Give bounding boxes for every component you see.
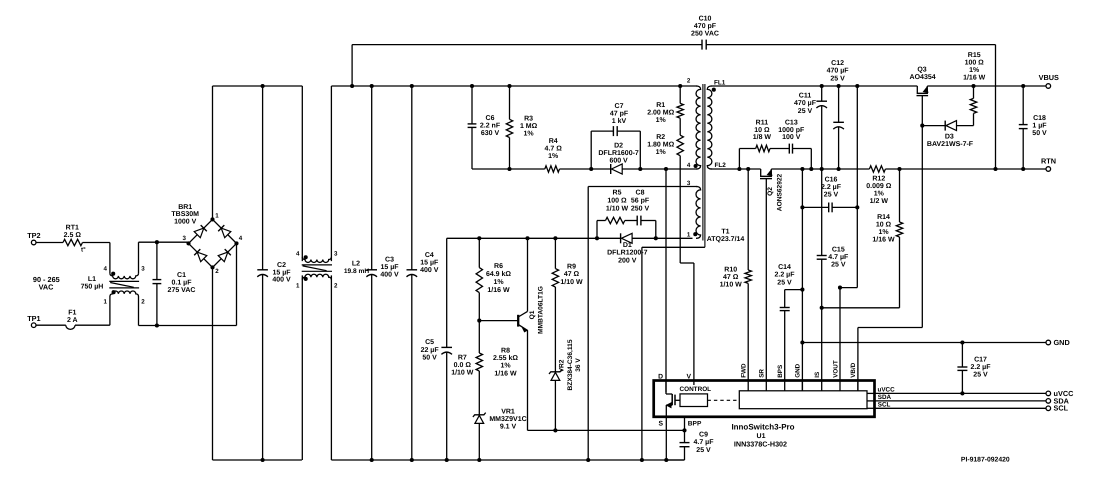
svg-text:1: 1 — [215, 213, 219, 220]
svg-text:t°: t° — [81, 247, 86, 254]
svg-text:25 V: 25 V — [824, 191, 839, 198]
common-mode choke L1 — [81, 265, 146, 305]
svg-text:1%: 1% — [874, 191, 885, 198]
IC pin SCL — [867, 401, 891, 408]
capacitor C11 — [794, 86, 827, 169]
capacitor C12 — [827, 60, 850, 169]
svg-text:250 VAC: 250 VAC — [691, 31, 719, 38]
thermistor RT1 — [63, 225, 86, 254]
svg-text:4: 4 — [687, 162, 691, 169]
svg-text:R7: R7 — [458, 355, 467, 362]
svg-text:19.8 mH: 19.8 mH — [344, 268, 370, 275]
wire uVCC — [875, 392, 1047, 394]
svg-text:10 Ω: 10 Ω — [754, 127, 770, 134]
wire clamp line / resistor R4 — [472, 138, 611, 172]
svg-text:2.2 nF: 2.2 nF — [480, 123, 501, 130]
svg-text:R3: R3 — [524, 116, 533, 123]
label 90-265 VAC — [33, 275, 60, 292]
svg-text:50 V: 50 V — [422, 355, 437, 362]
svg-text:1/10 W: 1/10 W — [720, 281, 743, 289]
svg-text:C10: C10 — [699, 16, 712, 23]
svg-text:L1: L1 — [88, 276, 96, 283]
svg-text:0.1 µF: 0.1 µF — [172, 279, 193, 286]
wire TP2 to RT1 — [36, 242, 63, 244]
wire BPP line — [528, 428, 687, 432]
IC internal MOSFET — [666, 394, 680, 408]
svg-text:15 µF: 15 µF — [420, 260, 439, 267]
svg-text:1%: 1% — [969, 67, 980, 74]
svg-text:TP1: TP1 — [27, 314, 40, 323]
IC pin V — [686, 374, 691, 381]
terminal TP1 — [27, 314, 40, 328]
capacitor C8 — [631, 190, 656, 239]
svg-text:R2: R2 — [656, 134, 665, 141]
capacitor C9 — [666, 430, 714, 460]
svg-text:15 µF: 15 µF — [380, 264, 399, 271]
svg-text:BAV21WS-7-F: BAV21WS-7-F — [927, 141, 974, 148]
svg-text:47 Ω: 47 Ω — [723, 274, 739, 281]
svg-text:1%: 1% — [524, 131, 535, 138]
IC pin VOUT — [832, 360, 840, 391]
svg-text:4.7 µF: 4.7 µF — [694, 439, 715, 446]
svg-text:3: 3 — [334, 250, 338, 257]
svg-text:3: 3 — [141, 265, 145, 272]
svg-text:25 V: 25 V — [973, 371, 988, 378]
svg-text:VOUT: VOUT — [832, 360, 839, 378]
transformer T1 primary winding — [694, 86, 701, 169]
svg-text:1 µF: 1 µF — [1032, 123, 1047, 130]
svg-text:SCL: SCL — [1054, 404, 1069, 413]
svg-text:C8: C8 — [636, 190, 645, 197]
svg-text:C3: C3 — [385, 257, 394, 264]
svg-text:25 V: 25 V — [696, 447, 711, 454]
svg-text:1/2 W: 1/2 W — [870, 197, 889, 205]
svg-text:400 V: 400 V — [272, 277, 291, 284]
svg-text:2: 2 — [687, 77, 691, 84]
capacitor C17 — [957, 343, 991, 396]
wire L1 pin 3 to BR1 pin 3 — [139, 240, 189, 273]
wire IS net / capacitor C15 — [817, 169, 849, 381]
svg-text:470 pF: 470 pF — [694, 23, 717, 30]
wire Q1 emitter to BPP line — [527, 330, 529, 430]
svg-text:4: 4 — [296, 250, 300, 257]
svg-text:MM3Z9V1C: MM3Z9V1C — [489, 416, 526, 423]
svg-text:1 MΩ: 1 MΩ — [520, 123, 538, 130]
IC pin VB/D — [850, 362, 858, 390]
IC pin uVCC — [867, 387, 895, 394]
wire SCL — [875, 407, 1047, 409]
capacitor C10 and top rail — [352, 16, 997, 172]
wire VOUT net — [838, 86, 857, 381]
bridge rectifier BR1 — [171, 204, 242, 275]
svg-text:AO4354: AO4354 — [910, 74, 936, 81]
IC pin IS — [814, 372, 822, 391]
resistor R6 — [476, 238, 511, 320]
svg-text:R5: R5 — [613, 190, 622, 197]
transformer T1 bias winding — [693, 187, 744, 244]
svg-text:DFLR1200-7: DFLR1200-7 — [607, 250, 648, 257]
svg-text:INN3378C-H302: INN3378C-H302 — [734, 439, 787, 448]
wire DC+ rail — [331, 84, 697, 88]
IC pin BPP — [685, 417, 702, 431]
svg-text:15 µF: 15 µF — [272, 269, 291, 276]
svg-text:1.80 MΩ: 1.80 MΩ — [647, 142, 674, 149]
MOSFET Q3 — [910, 67, 936, 126]
terminal RTN — [1041, 156, 1056, 171]
wire SDA — [875, 400, 1047, 402]
wire bias pin 3 to primary ground — [588, 187, 697, 461]
svg-text:2: 2 — [215, 268, 219, 275]
wire D pin — [664, 167, 668, 392]
svg-text:R9: R9 — [567, 263, 576, 270]
svg-text:1000 V: 1000 V — [174, 219, 197, 226]
wire FWD net / resistor R10 — [720, 167, 752, 381]
svg-text:FL2: FL2 — [715, 162, 727, 169]
svg-text:750 µH: 750 µH — [81, 284, 104, 291]
svg-text:GND: GND — [795, 363, 802, 377]
IC pin FWD — [741, 363, 749, 391]
svg-text:200 V: 200 V — [618, 257, 637, 264]
capacitor C4 — [407, 86, 440, 460]
resistor R11 — [737, 119, 789, 171]
svg-text:TP2: TP2 — [27, 231, 40, 240]
svg-text:DFLR1600-7: DFLR1600-7 — [598, 150, 639, 157]
svg-text:BR1: BR1 — [178, 204, 192, 211]
wire GND pin net — [800, 169, 804, 391]
resistor R14 — [822, 169, 903, 308]
svg-text:C13: C13 — [785, 119, 798, 126]
svg-text:4: 4 — [104, 265, 108, 272]
svg-text:F1: F1 — [68, 309, 76, 316]
svg-text:VR1: VR1 — [501, 409, 515, 416]
wire bottom primary rail — [331, 458, 684, 462]
svg-text:600 V: 600 V — [609, 158, 628, 165]
svg-text:25 V: 25 V — [831, 262, 846, 269]
terminal SCL — [1046, 404, 1069, 413]
svg-text:R14: R14 — [877, 214, 890, 221]
transformer T1 core — [703, 84, 705, 247]
svg-text:C7: C7 — [615, 103, 624, 110]
svg-text:1/16 W: 1/16 W — [487, 286, 510, 294]
capacitor C7 — [591, 103, 640, 169]
label PI-9187-092420 — [961, 456, 1010, 463]
svg-text:MMBTA06LT1G: MMBTA06LT1G — [537, 286, 544, 334]
terminal TP2 — [27, 231, 40, 245]
wire core ground — [642, 247, 705, 460]
svg-text:1: 1 — [104, 298, 108, 305]
IC pin D — [658, 374, 666, 394]
capacitor C6 — [468, 86, 501, 169]
capacitor C18 — [1019, 86, 1047, 169]
terminal uVCC — [1046, 389, 1074, 398]
svg-text:1: 1 — [296, 282, 300, 289]
svg-text:1/10 W: 1/10 W — [606, 205, 629, 213]
svg-text:Q1: Q1 — [529, 310, 536, 319]
svg-text:250 V: 250 V — [631, 206, 650, 213]
MOSFET Q2 — [760, 169, 784, 211]
capacitor C2 — [257, 86, 291, 460]
svg-text:R12: R12 — [872, 176, 885, 183]
svg-text:2: 2 — [141, 298, 145, 305]
svg-text:Q2: Q2 — [767, 187, 774, 196]
svg-text:C14: C14 — [778, 264, 791, 271]
svg-text:uVCC: uVCC — [878, 387, 896, 394]
svg-text:V: V — [686, 374, 691, 381]
svg-text:C9: C9 — [699, 432, 708, 439]
svg-text:22 µF: 22 µF — [421, 347, 440, 354]
svg-text:RT1: RT1 — [66, 225, 79, 232]
svg-text:3: 3 — [687, 180, 691, 187]
svg-text:C18: C18 — [1033, 115, 1046, 122]
svg-text:IS: IS — [814, 372, 821, 378]
svg-text:C1: C1 — [177, 272, 186, 279]
svg-text:1/16 W: 1/16 W — [494, 369, 517, 377]
svg-text:VR2: VR2 — [559, 359, 566, 372]
svg-text:2.55 kΩ: 2.55 kΩ — [493, 354, 518, 362]
svg-text:BPP: BPP — [688, 421, 702, 428]
svg-text:D: D — [658, 374, 663, 381]
svg-text:R8: R8 — [501, 347, 510, 354]
terminal GND — [1046, 338, 1070, 347]
svg-text:630 V: 630 V — [481, 130, 500, 137]
svg-text:ATQ23.7/14: ATQ23.7/14 — [707, 235, 745, 243]
resistor R2 — [647, 118, 683, 156]
svg-text:470 µF: 470 µF — [794, 100, 817, 107]
resistor R9 — [552, 238, 583, 371]
svg-text:C12: C12 — [831, 60, 844, 67]
capacitor C13 — [778, 119, 813, 171]
svg-text:1%: 1% — [656, 117, 667, 124]
svg-text:0.009 Ω: 0.009 Ω — [866, 183, 891, 190]
svg-text:2: 2 — [334, 282, 338, 289]
svg-text:GND: GND — [1054, 338, 1070, 347]
svg-text:1/10 W: 1/10 W — [560, 278, 583, 286]
svg-text:C11: C11 — [799, 92, 812, 99]
svg-text:1/10 W: 1/10 W — [451, 369, 474, 377]
svg-text:VAC: VAC — [39, 283, 55, 292]
svg-text:CONTROL: CONTROL — [679, 386, 711, 393]
fuse F1 — [36, 309, 78, 329]
terminal VBUS — [1039, 73, 1059, 88]
svg-text:1/16 W: 1/16 W — [872, 236, 895, 244]
IC labels — [731, 422, 794, 448]
IC pin S — [658, 405, 666, 460]
svg-text:T1: T1 — [721, 229, 729, 236]
wire RT1 to L1 pin 4 — [83, 243, 110, 274]
svg-text:Q3: Q3 — [917, 67, 926, 74]
svg-text:1%: 1% — [878, 229, 889, 236]
svg-text:PI-9187-092420: PI-9187-092420 — [961, 456, 1010, 463]
transformer T1 pin numbers — [687, 77, 691, 238]
svg-text:C15: C15 — [832, 247, 845, 254]
svg-text:1%: 1% — [656, 149, 667, 156]
wire L1 pin 2 to BR1 pin 4 — [139, 243, 237, 327]
svg-text:0.0 Ω: 0.0 Ω — [454, 362, 472, 369]
svg-text:C5: C5 — [425, 339, 434, 346]
svg-text:56 pF: 56 pF — [631, 198, 650, 205]
transistor Q1 — [477, 286, 544, 334]
svg-text:470 µF: 470 µF — [827, 68, 850, 75]
svg-text:BPS: BPS — [777, 365, 784, 378]
svg-text:3: 3 — [183, 235, 187, 242]
svg-text:R15: R15 — [968, 52, 981, 59]
IC U1 InnoSwitch3-Pro box — [654, 381, 875, 417]
svg-text:25 V: 25 V — [830, 75, 845, 82]
svg-text:10 Ω: 10 Ω — [876, 221, 892, 228]
wire secondary return rail FL2 — [711, 167, 1047, 171]
svg-text:SR: SR — [759, 369, 766, 378]
svg-text:1 kV: 1 kV — [612, 117, 627, 125]
transformer T1 secondary winding — [707, 79, 726, 169]
wire R2 to V pin — [680, 156, 694, 385]
svg-text:2.2 µF: 2.2 µF — [775, 272, 796, 279]
capacitor C3 — [366, 86, 399, 460]
wire SR net — [765, 179, 767, 381]
svg-text:1: 1 — [687, 232, 691, 239]
resistor R7 label — [451, 355, 474, 377]
svg-text:BZX384-C36,115: BZX384-C36,115 — [567, 339, 574, 390]
svg-text:1/8 W: 1/8 W — [753, 133, 772, 141]
svg-text:D1: D1 — [623, 242, 632, 249]
svg-text:SCL: SCL — [878, 401, 891, 408]
svg-text:C4: C4 — [425, 252, 434, 259]
svg-text:R11: R11 — [756, 119, 769, 126]
svg-text:D2: D2 — [614, 143, 623, 150]
resistor R15 — [963, 52, 986, 126]
wire VBUS rail FL1 — [711, 84, 1047, 88]
svg-text:2.2 µF: 2.2 µF — [971, 364, 992, 371]
svg-text:47 pF: 47 pF — [610, 111, 629, 118]
svg-text:S: S — [658, 421, 663, 428]
resistor R5 — [597, 190, 637, 239]
resistor R8 — [476, 321, 518, 415]
svg-text:L2: L2 — [352, 260, 360, 267]
svg-text:SDA: SDA — [878, 394, 892, 401]
common-mode choke L2 — [296, 86, 369, 460]
IC pin BPS — [777, 365, 785, 391]
resistor R3 — [506, 86, 537, 171]
resistor R12 — [866, 166, 891, 205]
wire Q1 collector — [527, 238, 529, 311]
svg-text:275 VAC: 275 VAC — [168, 287, 196, 294]
svg-text:R10: R10 — [724, 267, 737, 274]
wire GND rail — [802, 340, 1046, 344]
svg-text:2.2 µF: 2.2 µF — [821, 184, 842, 191]
svg-text:4: 4 — [239, 235, 243, 242]
svg-text:FL1: FL1 — [714, 79, 726, 86]
svg-text:C16: C16 — [825, 177, 838, 184]
svg-text:2.00 MΩ: 2.00 MΩ — [647, 110, 674, 117]
svg-text:1/16 W: 1/16 W — [963, 74, 986, 82]
svg-text:C17: C17 — [974, 356, 987, 363]
svg-text:400 V: 400 V — [380, 272, 399, 279]
svg-text:C6: C6 — [486, 115, 495, 122]
svg-text:25 V: 25 V — [777, 279, 792, 286]
svg-text:D3: D3 — [945, 133, 954, 140]
IC pin SDA — [867, 394, 892, 401]
zener VR2 — [549, 339, 582, 430]
svg-text:RTN: RTN — [1041, 156, 1056, 165]
svg-text:64.9 kΩ: 64.9 kΩ — [486, 270, 511, 278]
wire F1 to L1 pin 1 — [75, 296, 110, 325]
wire BR1 pin 2 to DC- rail — [213, 267, 302, 462]
svg-text:9.1 V: 9.1 V — [500, 424, 517, 431]
svg-text:100 Ω: 100 Ω — [607, 198, 627, 205]
wire VB/D net — [858, 126, 922, 391]
svg-text:R6: R6 — [494, 263, 503, 270]
resistor R1 — [647, 86, 683, 124]
IC pin SR — [759, 369, 767, 391]
svg-text:50 V: 50 V — [1032, 130, 1047, 137]
capacitor C5 — [421, 238, 452, 460]
IC pin GND — [795, 363, 803, 390]
wire bias rectified line — [447, 236, 693, 240]
capacitor C1 — [153, 242, 196, 325]
capacitor C14 — [775, 264, 803, 381]
svg-text:100 Ω: 100 Ω — [965, 60, 985, 67]
svg-text:1%: 1% — [500, 363, 511, 370]
svg-text:25 V: 25 V — [798, 108, 813, 115]
svg-text:1000 pF: 1000 pF — [778, 127, 805, 134]
svg-text:C2: C2 — [277, 262, 286, 269]
svg-text:AONS62922: AONS62922 — [777, 173, 784, 211]
diode D1 — [607, 233, 648, 264]
svg-text:1%: 1% — [493, 279, 504, 286]
svg-text:VBUS: VBUS — [1039, 73, 1059, 82]
svg-text:InnoSwitch3-Pro: InnoSwitch3-Pro — [731, 422, 794, 431]
svg-text:2 A: 2 A — [67, 317, 78, 324]
svg-text:TBS30M: TBS30M — [171, 211, 199, 218]
svg-text:VB/D: VB/D — [850, 362, 857, 377]
wire BR1 pin 1 to DC+ rail — [213, 84, 303, 219]
svg-text:4.7 Ω: 4.7 Ω — [545, 146, 563, 153]
svg-text:400 V: 400 V — [420, 267, 439, 274]
svg-text:47 Ω: 47 Ω — [564, 271, 580, 278]
terminal SDA — [1046, 396, 1070, 405]
svg-text:R4: R4 — [549, 138, 558, 145]
diode D2 — [589, 143, 697, 175]
svg-text:100 V: 100 V — [782, 134, 801, 141]
svg-text:R1: R1 — [656, 102, 665, 109]
zener VR1 — [473, 409, 527, 461]
diode D3 — [920, 121, 974, 148]
svg-text:36 V: 36 V — [575, 358, 582, 372]
capacitor C16 — [800, 177, 859, 213]
svg-text:2.5 Ω: 2.5 Ω — [64, 232, 82, 239]
svg-text:1%: 1% — [548, 153, 559, 160]
svg-text:FWD: FWD — [741, 363, 748, 378]
svg-text:4.7 µF: 4.7 µF — [828, 254, 849, 261]
